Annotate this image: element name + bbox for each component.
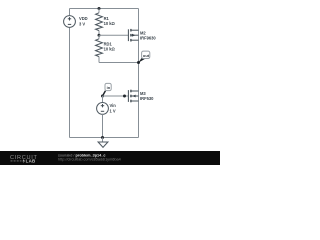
svg-text:IRF530: IRF530 [140, 96, 154, 101]
transistor M3 IRF530 [128, 90, 138, 103]
node in flag box [105, 83, 111, 90]
wire right rail M2 [138, 9, 140, 63]
voltage source Vin [97, 103, 109, 115]
wire bottom rail [70, 137, 139, 139]
wire Vin bottom lead [102, 114, 104, 137]
wire R1 bottom lead [98, 31, 100, 36]
svg-text:out: out [143, 53, 150, 58]
wire M3 gate [103, 95, 129, 97]
svg-text:IRF9630: IRF9630 [140, 35, 156, 40]
transistor M2 IRF9630 [128, 29, 138, 42]
wire top rail [70, 8, 139, 10]
node ground junction [101, 136, 104, 139]
svg-text:Vin: Vin [110, 103, 117, 108]
wire Vin top lead [102, 96, 104, 103]
node M3 gate mid junction [123, 95, 126, 98]
resistor R1 [96, 13, 103, 31]
wire out net horizontal [99, 62, 139, 64]
node out flag box [142, 51, 150, 58]
node out flag tail [138, 58, 145, 63]
svg-text:10 kΩ: 10 kΩ [104, 46, 116, 51]
voltage source VDD [64, 16, 76, 28]
node out junction [137, 61, 140, 64]
svg-text:10 kΩ: 10 kΩ [104, 21, 116, 26]
wire R1 top lead [98, 9, 100, 13]
svg-text:http://circuitlab.com/c85addi1: http://circuitlab.com/c85addi1ym6ba4 [58, 157, 121, 161]
svg-text:R1: R1 [104, 16, 110, 21]
wire ground stub [102, 138, 104, 143]
wire RD1 bottom lead [98, 57, 100, 63]
wire M2 gate [99, 34, 128, 36]
resistor RD1 [96, 39, 103, 57]
svg-text:1 V: 1 V [110, 109, 116, 114]
ground [98, 142, 108, 147]
node R1/RD1 gate junction [98, 34, 101, 37]
wire left rail lower [69, 27, 71, 137]
node in junction [101, 95, 104, 98]
node in flag tail [103, 91, 106, 96]
footer bar [0, 151, 220, 165]
wire left rail upper [69, 9, 71, 16]
svg-text:in: in [107, 85, 111, 90]
wire RD1 top lead [98, 35, 100, 39]
svg-text:LAB: LAB [26, 159, 36, 164]
wire right rail M3 [138, 63, 140, 138]
svg-text:3 V: 3 V [79, 21, 85, 26]
node top R1 junction [98, 7, 101, 10]
